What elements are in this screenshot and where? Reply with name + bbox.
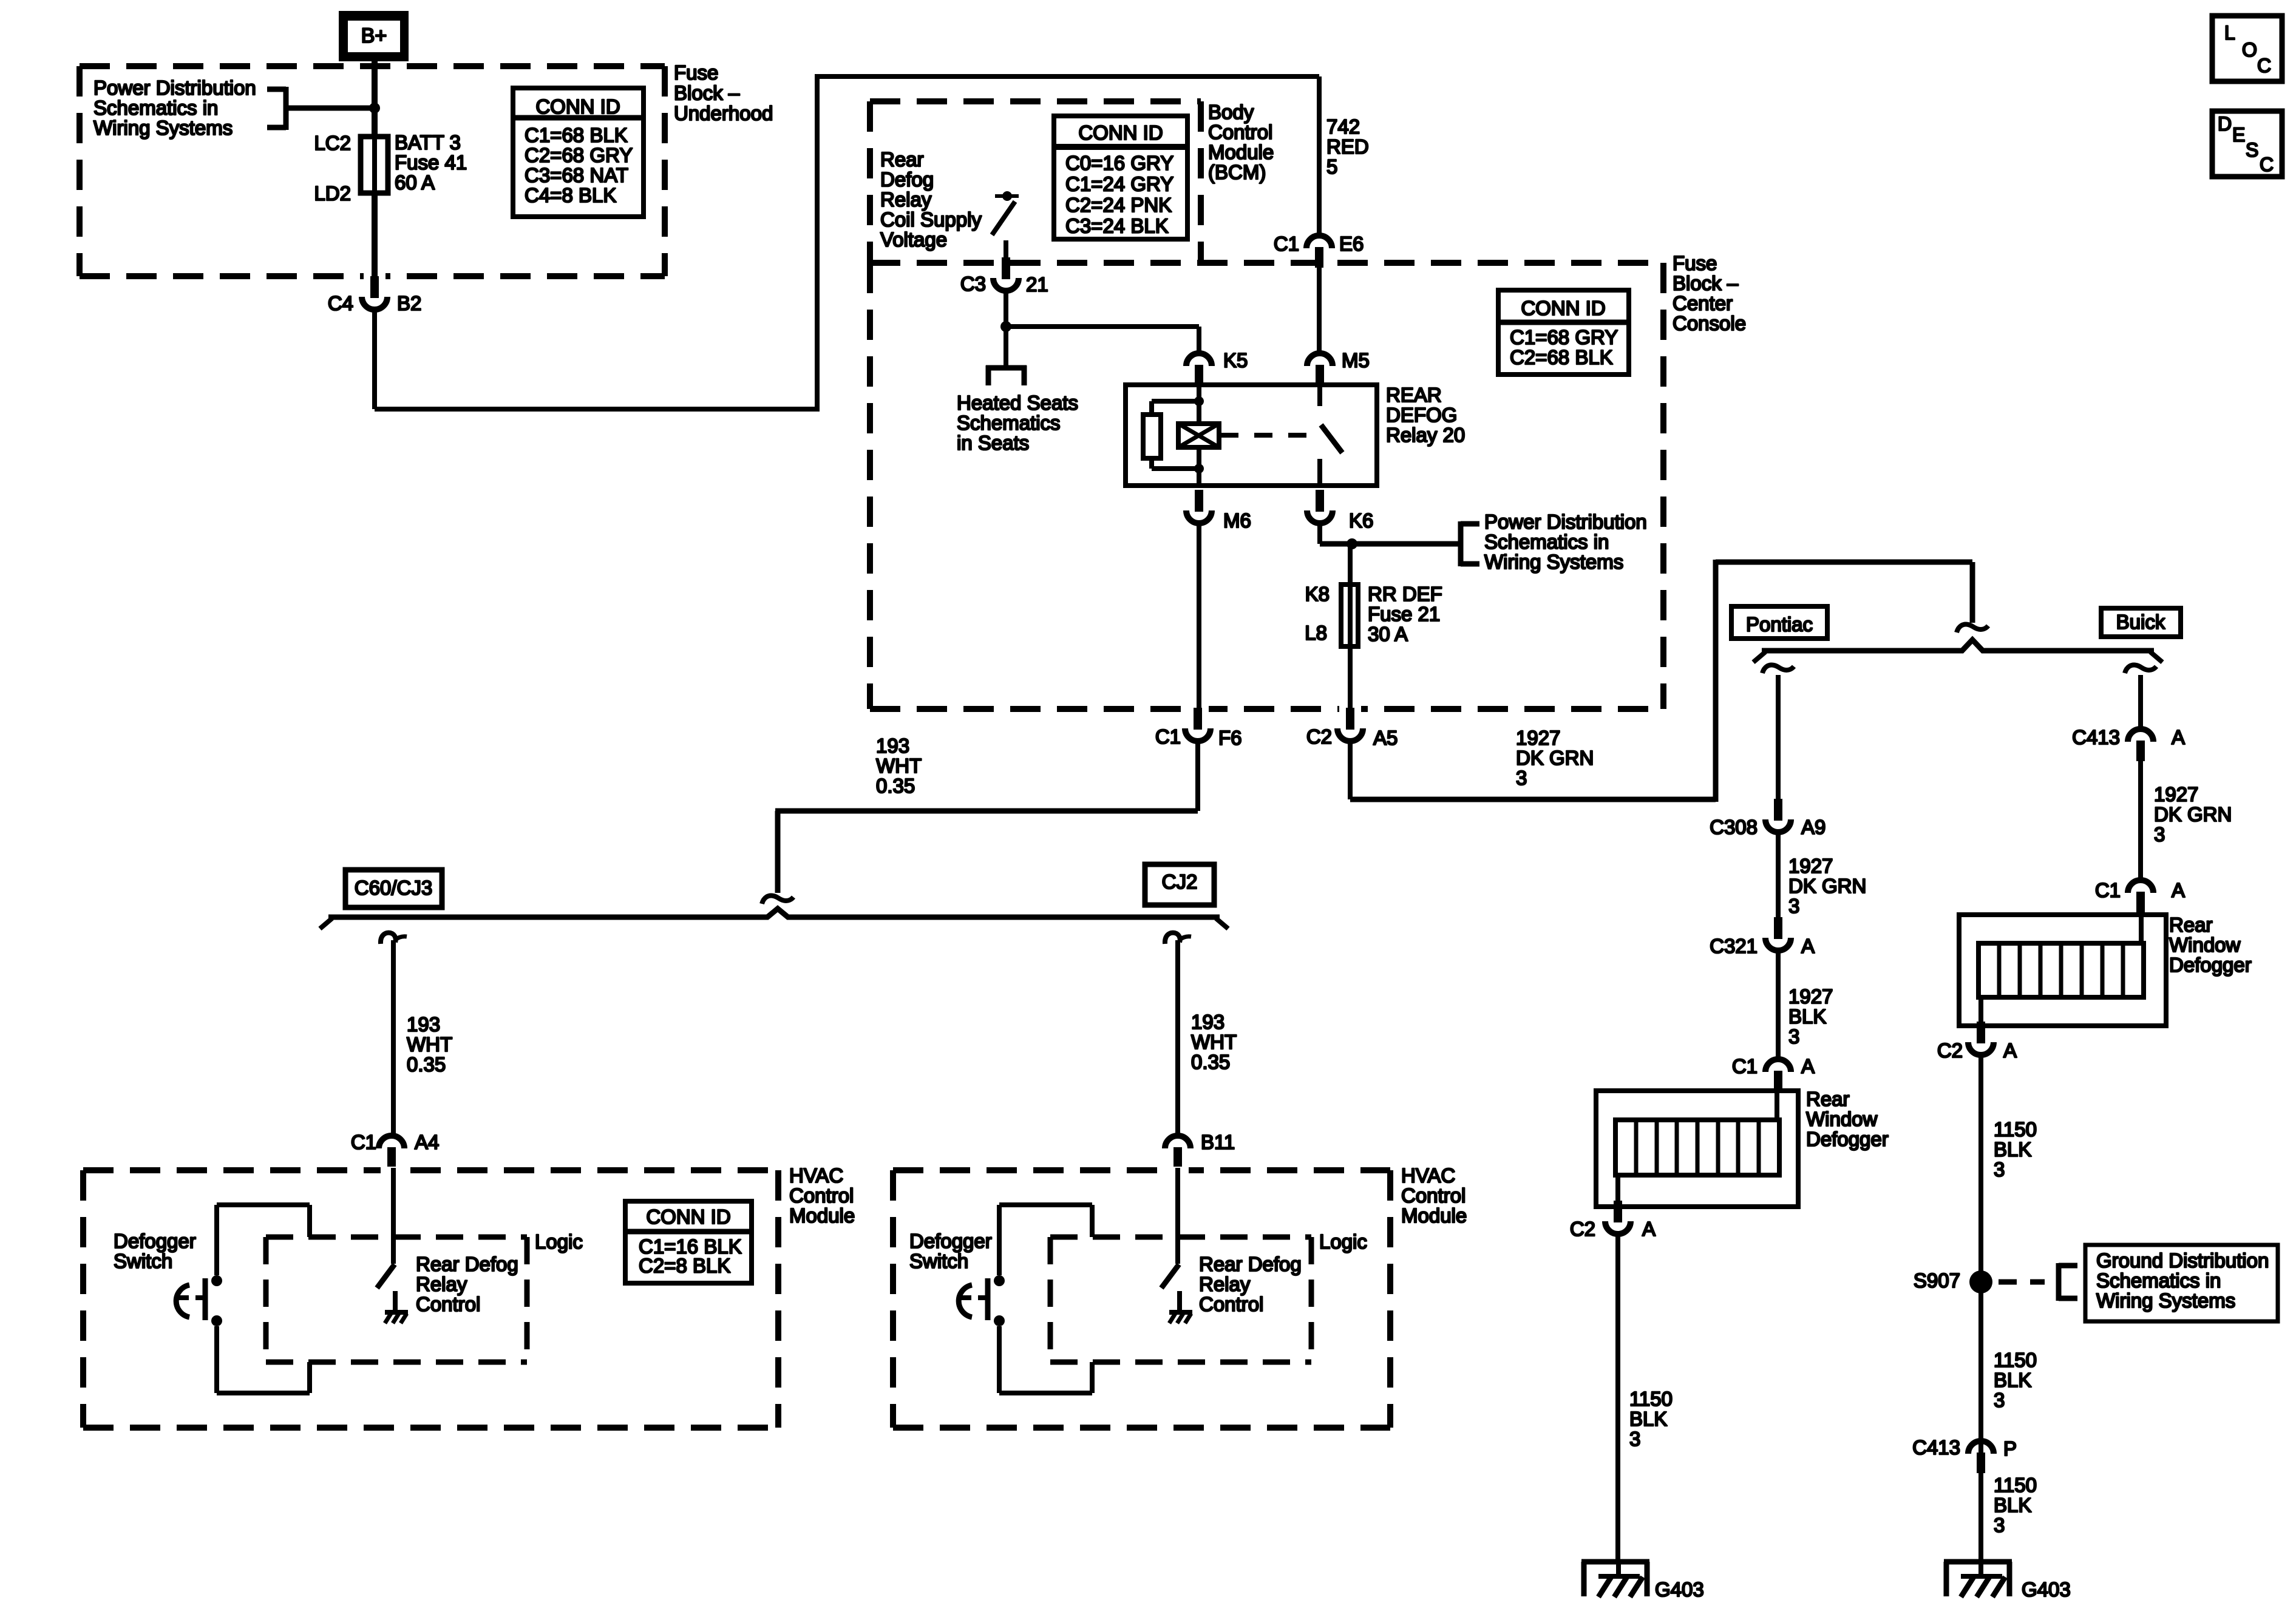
svg-text:DK GRN: DK GRN: [1788, 875, 1866, 897]
svg-text:Schematics in: Schematics in: [2096, 1269, 2221, 1292]
svg-text:Schematics in: Schematics in: [1484, 531, 1609, 553]
svg-text:C1: C1: [351, 1131, 376, 1153]
svg-text:Relay 20: Relay 20: [1386, 424, 1465, 446]
svg-text:M6: M6: [1223, 509, 1251, 532]
svg-text:A: A: [2172, 726, 2185, 748]
svg-text:Center: Center: [1673, 292, 1733, 314]
svg-text:CJ2: CJ2: [1162, 870, 1198, 893]
svg-text:3: 3: [1994, 1514, 2005, 1536]
svg-text:B11: B11: [1201, 1131, 1235, 1153]
svg-text:1150: 1150: [1994, 1118, 2037, 1141]
svg-text:A: A: [1801, 935, 1815, 957]
svg-text:21: 21: [1026, 273, 1048, 296]
svg-text:WHT: WHT: [407, 1033, 452, 1056]
svg-text:A9: A9: [1801, 816, 1826, 838]
svg-text:O: O: [2242, 39, 2257, 61]
svg-text:Block –: Block –: [674, 82, 740, 104]
svg-text:Buick: Buick: [2116, 611, 2165, 633]
svg-text:193: 193: [407, 1013, 440, 1036]
svg-text:60 A: 60 A: [395, 171, 435, 194]
svg-text:C4: C4: [328, 292, 353, 314]
svg-text:Control: Control: [789, 1184, 854, 1207]
svg-text:B+: B+: [361, 24, 387, 47]
svg-text:742: 742: [1326, 115, 1360, 138]
svg-text:Rear: Rear: [880, 148, 924, 171]
svg-text:C2=24 PNK: C2=24 PNK: [1065, 194, 1172, 216]
svg-text:3: 3: [1629, 1428, 1640, 1450]
svg-text:Console: Console: [1673, 312, 1746, 334]
svg-text:C1: C1: [1274, 232, 1299, 255]
svg-text:WHT: WHT: [876, 754, 922, 777]
svg-text:(BCM): (BCM): [1208, 161, 1266, 183]
svg-text:Coil Supply: Coil Supply: [880, 208, 982, 231]
svg-text:Module: Module: [1401, 1204, 1467, 1227]
svg-text:1150: 1150: [1994, 1474, 2037, 1496]
svg-text:G403: G403: [1655, 1578, 1704, 1601]
svg-text:0.35: 0.35: [407, 1053, 446, 1076]
svg-text:Block –: Block –: [1673, 272, 1739, 294]
svg-text:Window: Window: [2169, 934, 2241, 956]
svg-text:Defog: Defog: [880, 168, 934, 191]
svg-text:Rear Defog: Rear Defog: [416, 1253, 518, 1275]
svg-text:LC2: LC2: [314, 132, 351, 154]
svg-text:WHT: WHT: [1191, 1031, 1237, 1053]
svg-text:C2=8 BLK: C2=8 BLK: [639, 1255, 730, 1277]
svg-text:C2=68 BLK: C2=68 BLK: [1510, 346, 1613, 368]
svg-text:1927: 1927: [1788, 985, 1833, 1008]
svg-text:Module: Module: [1208, 141, 1274, 163]
svg-text:K8: K8: [1305, 583, 1330, 605]
svg-text:C1: C1: [1732, 1055, 1758, 1077]
svg-text:BATT 3: BATT 3: [395, 131, 461, 154]
svg-text:Wiring Systems: Wiring Systems: [2096, 1289, 2235, 1312]
svg-text:Control: Control: [416, 1293, 480, 1315]
svg-text:CONN ID: CONN ID: [535, 95, 620, 118]
svg-text:1927: 1927: [2154, 783, 2198, 805]
svg-text:Power Distribution: Power Distribution: [93, 76, 256, 99]
svg-text:Defogger: Defogger: [909, 1230, 992, 1252]
svg-text:1150: 1150: [1994, 1349, 2037, 1371]
svg-text:Rear Defog: Rear Defog: [1199, 1253, 1302, 1275]
svg-text:Fuse 21: Fuse 21: [1368, 603, 1440, 625]
svg-text:C413: C413: [2072, 726, 2120, 748]
svg-text:3: 3: [1994, 1389, 2005, 1411]
svg-text:0.35: 0.35: [1191, 1051, 1230, 1073]
svg-text:C413: C413: [1912, 1436, 1960, 1459]
svg-text:K6: K6: [1349, 509, 1373, 532]
svg-text:1150: 1150: [1629, 1388, 1673, 1410]
svg-text:A5: A5: [1373, 727, 1398, 749]
svg-text:C1=68 GRY: C1=68 GRY: [1510, 326, 1618, 348]
svg-text:Rear: Rear: [1806, 1088, 1850, 1110]
svg-text:C: C: [2260, 154, 2274, 175]
svg-text:RR DEF: RR DEF: [1368, 583, 1442, 605]
svg-text:Control: Control: [1208, 121, 1272, 143]
svg-text:DK GRN: DK GRN: [1516, 747, 1594, 769]
svg-text:Control: Control: [1199, 1293, 1263, 1315]
svg-text:193: 193: [1191, 1011, 1224, 1033]
svg-text:DK GRN: DK GRN: [2154, 803, 2232, 825]
svg-text:Fuse: Fuse: [674, 61, 718, 84]
svg-text:Relay: Relay: [416, 1273, 467, 1295]
svg-text:Window: Window: [1806, 1108, 1878, 1130]
svg-text:Module: Module: [789, 1204, 855, 1227]
svg-text:Body: Body: [1208, 101, 1254, 123]
svg-text:BLK: BLK: [1788, 1005, 1826, 1028]
svg-text:DEFOG: DEFOG: [1386, 404, 1457, 426]
svg-text:Fuse: Fuse: [1673, 252, 1717, 274]
svg-text:BLK: BLK: [1994, 1494, 2031, 1516]
svg-text:CONN ID: CONN ID: [1078, 121, 1163, 144]
svg-text:Voltage: Voltage: [880, 228, 947, 251]
svg-text:C1=24 GRY: C1=24 GRY: [1065, 173, 1173, 195]
svg-text:A: A: [2003, 1039, 2017, 1062]
svg-text:Switch: Switch: [114, 1250, 172, 1272]
svg-text:3: 3: [1788, 1025, 1799, 1048]
svg-text:P: P: [2003, 1437, 2017, 1460]
svg-text:REAR: REAR: [1386, 384, 1442, 406]
svg-text:C2: C2: [1937, 1039, 1963, 1062]
svg-text:Logic: Logic: [535, 1230, 583, 1253]
svg-text:C1=68 BLK: C1=68 BLK: [525, 124, 628, 146]
svg-text:C3=24 BLK: C3=24 BLK: [1065, 215, 1169, 237]
svg-text:Defogger: Defogger: [114, 1230, 196, 1252]
svg-text:Rear: Rear: [2169, 914, 2213, 936]
svg-text:Control: Control: [1401, 1184, 1466, 1207]
svg-text:3: 3: [1788, 895, 1799, 917]
svg-text:C321: C321: [1710, 935, 1758, 957]
svg-text:E6: E6: [1339, 232, 1364, 255]
svg-text:E: E: [2232, 124, 2245, 146]
svg-text:Heated Seats: Heated Seats: [957, 392, 1078, 414]
svg-text:HVAC: HVAC: [789, 1164, 843, 1187]
svg-text:RED: RED: [1326, 135, 1369, 158]
svg-text:M5: M5: [1342, 349, 1370, 371]
svg-text:Schematics: Schematics: [957, 412, 1061, 434]
svg-text:S907: S907: [1914, 1269, 1960, 1292]
svg-text:C2=68 GRY: C2=68 GRY: [525, 144, 633, 166]
svg-text:Fuse 41: Fuse 41: [395, 151, 467, 174]
svg-text:C1: C1: [1155, 725, 1181, 748]
svg-text:C60/CJ3: C60/CJ3: [355, 876, 432, 899]
svg-text:CONN ID: CONN ID: [1521, 297, 1605, 319]
svg-text:Ground Distribution: Ground Distribution: [2096, 1249, 2269, 1272]
svg-text:L: L: [2224, 22, 2235, 44]
svg-text:A: A: [1801, 1055, 1815, 1077]
svg-text:C1: C1: [2095, 879, 2121, 901]
svg-text:Logic: Logic: [1319, 1230, 1367, 1253]
svg-text:3: 3: [1516, 767, 1527, 789]
svg-text:C: C: [2257, 55, 2271, 76]
svg-text:BLK: BLK: [1629, 1408, 1667, 1430]
svg-text:A: A: [2172, 879, 2185, 901]
svg-text:Defogger: Defogger: [2169, 954, 2252, 976]
svg-text:A: A: [1642, 1218, 1656, 1240]
svg-text:193: 193: [876, 734, 909, 757]
svg-text:CONN ID: CONN ID: [646, 1205, 730, 1228]
svg-text:1927: 1927: [1516, 727, 1560, 749]
svg-text:D: D: [2218, 113, 2232, 135]
svg-text:BLK: BLK: [1994, 1138, 2031, 1161]
svg-text:C0=16 GRY: C0=16 GRY: [1065, 152, 1173, 174]
svg-text:K5: K5: [1223, 349, 1248, 371]
svg-text:Defogger: Defogger: [1806, 1128, 1889, 1150]
svg-text:Relay: Relay: [880, 188, 932, 211]
svg-text:Power Distribution: Power Distribution: [1484, 510, 1647, 533]
svg-text:B2: B2: [397, 292, 421, 314]
svg-text:Underhood: Underhood: [674, 102, 773, 124]
svg-text:LD2: LD2: [314, 182, 351, 205]
svg-text:A4: A4: [415, 1131, 439, 1153]
svg-text:C4=8 BLK: C4=8 BLK: [525, 184, 616, 206]
svg-text:5: 5: [1326, 155, 1337, 178]
svg-text:Relay: Relay: [1199, 1273, 1251, 1295]
svg-text:0.35: 0.35: [876, 775, 915, 797]
svg-text:F6: F6: [1218, 727, 1242, 749]
svg-text:in Seats: in Seats: [957, 432, 1029, 454]
svg-text:3: 3: [1994, 1158, 2005, 1181]
svg-text:C2: C2: [1306, 725, 1332, 748]
svg-text:HVAC: HVAC: [1401, 1164, 1455, 1187]
svg-text:Switch: Switch: [909, 1250, 968, 1272]
svg-text:1927: 1927: [1788, 855, 1833, 877]
svg-text:Wiring Systems: Wiring Systems: [93, 117, 233, 139]
svg-text:C2: C2: [1570, 1218, 1595, 1240]
svg-text:3: 3: [2154, 823, 2165, 846]
svg-text:C3=68 NAT: C3=68 NAT: [525, 164, 628, 186]
svg-text:C3: C3: [960, 273, 986, 295]
svg-text:Wiring Systems: Wiring Systems: [1484, 551, 1623, 573]
svg-text:S: S: [2246, 139, 2258, 161]
svg-text:Pontiac: Pontiac: [1746, 613, 1813, 636]
svg-text:30 A: 30 A: [1368, 623, 1408, 645]
svg-text:C308: C308: [1710, 816, 1758, 838]
svg-text:Schematics in: Schematics in: [93, 97, 218, 119]
svg-text:G403: G403: [2022, 1578, 2071, 1601]
svg-text:L8: L8: [1305, 622, 1327, 644]
svg-text:BLK: BLK: [1994, 1369, 2031, 1391]
